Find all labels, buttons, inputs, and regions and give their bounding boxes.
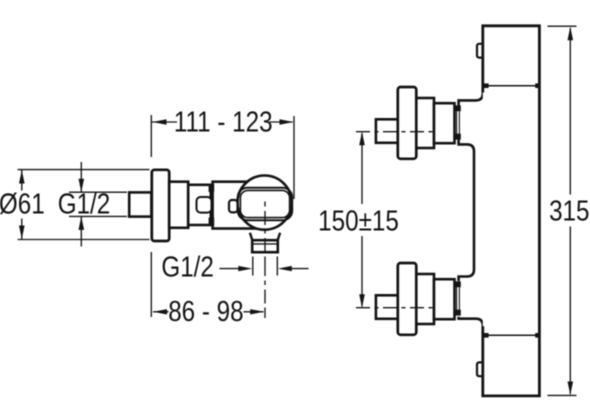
svg-text:315: 315 [549, 195, 589, 227]
svg-text:150±15: 150±15 [318, 205, 399, 237]
svg-text:Ø61: Ø61 [0, 188, 45, 220]
svg-text:G1/2: G1/2 [58, 188, 111, 220]
svg-text:G1/2: G1/2 [161, 251, 214, 283]
svg-text:111 - 123: 111 - 123 [174, 106, 273, 138]
svg-text:86 - 98: 86 - 98 [168, 295, 243, 327]
